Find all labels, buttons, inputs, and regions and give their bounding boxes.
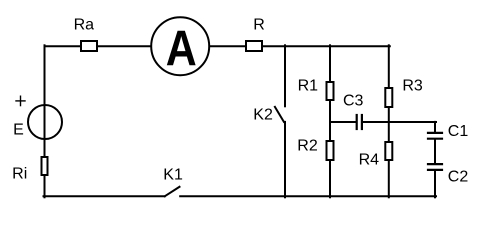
resistor R4 (359, 142, 393, 169)
wire R3 branch top vertical (388, 45, 390, 87)
svg-text:R1: R1 (298, 78, 319, 95)
wire C2 bottom vertical (434, 171, 436, 198)
wire bottom right (K1 to C2 branch corner) (180, 195, 436, 197)
svg-text:C2: C2 (448, 169, 469, 186)
resistor R1 (298, 78, 334, 100)
wire Ra to ammeter (98, 45, 151, 47)
wire R2 bottom vertical (329, 161, 331, 198)
switch K1 (163, 167, 183, 197)
wire middle right (C3 to C1 branch corner) (363, 121, 436, 123)
wire C1-C2 vertical (434, 140, 436, 163)
wire middle left (R1 node to C3) (330, 121, 355, 123)
wire R3-R4 middle vertical (388, 108, 390, 142)
wire C1 branch upper vertical (434, 122, 436, 132)
resistor Ra (74, 16, 97, 51)
capacitor C3 (343, 93, 364, 130)
capacitor C2 (428, 164, 468, 185)
capacitor C1 (428, 123, 468, 140)
wire ammeter to R (210, 45, 246, 47)
wire R1 branch top vertical (329, 45, 331, 81)
svg-text:R2: R2 (297, 138, 318, 155)
ammeter A (151, 17, 209, 76)
wire K2 branch bottom vertical (284, 122, 286, 197)
voltage source E (13, 96, 62, 139)
svg-text:R3: R3 (402, 78, 423, 95)
resistor Ri (12, 157, 47, 182)
wire left vertical lower (Ri to bottom corner) (44, 176, 46, 197)
svg-text:C3: C3 (343, 93, 364, 110)
wire bottom left (corner to K1) (44, 195, 165, 197)
wire R to top-right corner (263, 45, 390, 47)
svg-text:K1: K1 (163, 167, 183, 184)
switch K2 (253, 107, 284, 124)
svg-text:K2: K2 (253, 107, 273, 124)
svg-text:Ra: Ra (74, 16, 95, 33)
resistor R2 (297, 138, 333, 160)
svg-text:E: E (13, 121, 24, 138)
wire R4 bottom vertical (388, 160, 390, 197)
wire K2 branch top vertical (284, 45, 286, 106)
resistor R (246, 16, 265, 51)
svg-text:R4: R4 (359, 152, 380, 169)
svg-text:C1: C1 (448, 123, 469, 140)
svg-text:A: A (166, 21, 197, 77)
resistor R3 (385, 78, 423, 107)
wire left vertical upper (corner through source E) (44, 45, 46, 156)
wire R1-R2 middle vertical (329, 101, 331, 141)
svg-text:R: R (253, 16, 265, 33)
svg-text:Ri: Ri (12, 165, 27, 182)
wire top segment left (corner to Ra) (45, 45, 81, 47)
